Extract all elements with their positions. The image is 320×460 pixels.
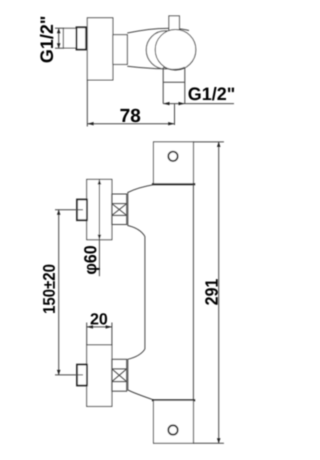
dimension 20 line <box>87 326 112 328</box>
dimension G1/2 extension line bottom <box>55 47 64 49</box>
dimension 150+-20 extension top <box>55 209 83 211</box>
outlet boss arc <box>163 67 184 70</box>
arrow down 291 <box>217 438 221 443</box>
label G1/2" outlet <box>189 87 235 100</box>
label 20 <box>91 313 108 324</box>
outlet joint line <box>163 81 185 83</box>
bottom eccentric hatch <box>112 359 127 391</box>
label 150+-20 (rotated) <box>43 265 55 313</box>
dimension G1/2 extension line top <box>55 27 64 29</box>
top eccentric hatch <box>112 194 127 225</box>
top inlet flange <box>87 179 112 239</box>
arrow down <box>57 43 61 48</box>
body column right edge <box>192 184 194 400</box>
label phi60 (rotated) <box>84 246 100 274</box>
dimension 78 line <box>87 123 174 125</box>
knob circle <box>155 30 196 71</box>
body bottom profile line <box>127 66 164 69</box>
wall flange (side view) <box>87 18 113 80</box>
top wall plate <box>154 142 194 184</box>
body column left edge <box>144 237 146 350</box>
arrow up 150 <box>57 210 61 215</box>
dimension 291 line <box>218 142 220 443</box>
bottom wall plate <box>154 401 194 444</box>
label G1/2" inlet (rotated) <box>40 17 53 63</box>
dimension 20 extension right <box>111 323 113 345</box>
dimension 78 extension line right <box>174 104 176 125</box>
arrow right 78 <box>168 122 174 125</box>
dimension 150+-20 line <box>58 210 60 375</box>
label 291 (rotated) <box>205 279 218 305</box>
inlet ring nut <box>77 27 87 49</box>
arrow up <box>57 28 61 33</box>
arrow up phi60 <box>98 179 102 184</box>
bottom plate screw hole <box>168 425 177 434</box>
top plate screw hole <box>168 152 177 161</box>
handle lever tip <box>169 16 180 32</box>
dimension phi60 line <box>98 179 100 276</box>
dimension 150+-20 extension bottom <box>55 374 83 376</box>
arrow down phi60 <box>98 235 102 240</box>
arrow left 78 <box>87 122 93 125</box>
arrow up 291 <box>217 142 221 147</box>
body top profile line <box>127 28 189 33</box>
bottom wall line (thick) <box>152 399 195 401</box>
outlet bottom edge / G1/2 leader <box>163 103 234 105</box>
arrow right 20 <box>106 325 112 328</box>
label 78 <box>120 109 140 123</box>
top horn outline <box>128 185 154 237</box>
dimension 78 extension line left <box>86 80 88 127</box>
arrow right at outlet <box>179 102 185 105</box>
bottom inlet nut <box>77 365 87 386</box>
bottom horn outline <box>128 349 154 400</box>
dimension 291 extension top <box>193 141 224 143</box>
arrow left 20 <box>87 325 93 328</box>
dimension 291 extension bottom <box>193 442 224 444</box>
arrow down 150 <box>57 370 61 375</box>
arrow left at outlet <box>163 102 169 105</box>
bottom inlet flange <box>87 345 112 407</box>
top wall line (thick) <box>152 183 195 185</box>
inlet nipple <box>63 28 76 48</box>
dimension G1/2 arrow line <box>58 28 60 48</box>
top inlet nut <box>77 200 87 221</box>
body end cap ellipse <box>146 31 184 69</box>
dimension 20 extension left <box>86 323 88 345</box>
body neck <box>113 35 127 65</box>
outlet pipe <box>163 68 185 104</box>
